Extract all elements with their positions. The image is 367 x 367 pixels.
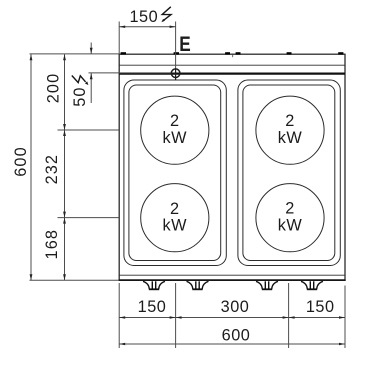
top extension line right (electrical point up) [175, 22, 177, 70]
body outer rectangle [119, 54, 345, 280]
svg-text:kW: kW [278, 129, 303, 147]
feet [143, 281, 323, 290]
svg-text:200: 200 [44, 73, 62, 103]
600 left dimension line [30, 54, 32, 280]
left bottom extension line [30, 279, 120, 281]
foot 2 [187, 281, 209, 290]
50 dimension lower leg [90, 73, 92, 103]
left top extension line [30, 53, 120, 55]
arrowheads [30, 26, 345, 346]
svg-text:50: 50 [71, 86, 89, 106]
50 dimension upper leg [90, 43, 92, 54]
bottom extension line x=175.6 [175, 283, 177, 348]
bottom 150/300/150 dim arrows [119, 316, 125, 319]
top extension line left (body edge up) [118, 22, 120, 55]
bottom band thin line [119, 274, 345, 276]
top band thin line [119, 64, 345, 66]
left hob module outer rounded rect [124, 80, 226, 266]
svg-text:kW: kW [163, 216, 188, 234]
svg-text:150: 150 [306, 298, 335, 316]
svg-text:2: 2 [285, 112, 295, 130]
extension line from connection point to 50-dim [89, 72, 172, 74]
foot 3 [256, 281, 278, 290]
left junction extension line 200/232 [58, 129, 120, 131]
svg-text:2: 2 [170, 112, 180, 130]
50 dim outside arrows [90, 48, 93, 54]
foot 1 [143, 281, 165, 290]
hotplate top-left [141, 96, 209, 164]
chain dim arrows [63, 54, 66, 60]
svg-text:600: 600 [222, 327, 251, 345]
bottom 600 dim arrows [119, 343, 125, 346]
hotplate bottom-right [256, 184, 324, 252]
connection point circle [171, 69, 180, 78]
svg-text:kW: kW [163, 129, 188, 147]
svg-text:2: 2 [170, 200, 180, 218]
svg-text:600: 600 [12, 146, 30, 176]
svg-text:150: 150 [129, 8, 158, 26]
right hob module outer rounded rect [238, 80, 340, 266]
chain dimension line 200/232/168 [64, 54, 66, 280]
top thick line (hob surface front edge) [119, 72, 345, 74]
left junction extension line 232/168 [58, 217, 120, 219]
top 150 dim arrows [119, 26, 125, 29]
bottom extension line x=288.6 [288, 283, 290, 348]
foot 4 [301, 281, 323, 290]
svg-text:150: 150 [138, 298, 167, 316]
bottom extension line x=345 [344, 286, 346, 349]
lightning top [161, 7, 171, 22]
svg-text:kW: kW [278, 216, 303, 234]
600 left dim arrows [30, 54, 33, 60]
body bottom thick edge [119, 279, 346, 281]
right hob module inner rounded rect [243, 85, 335, 261]
top 150 dimension line [119, 26, 175, 28]
svg-text:300: 300 [221, 298, 250, 316]
svg-text:168: 168 [43, 229, 61, 259]
center tick below top edge [232, 54, 234, 57]
svg-text:232: 232 [43, 154, 61, 184]
hotplate bottom-left [141, 184, 209, 252]
bottom extension line x=119 [118, 283, 120, 348]
svg-text:E: E [179, 32, 190, 56]
bottom dimension line 150/300/150 [119, 317, 345, 319]
black tick marks on top edge [121, 52, 344, 54]
bottom dimension line 600 [119, 343, 345, 345]
lightning left [72, 76, 89, 86]
left hob module inner rounded rect [129, 85, 221, 261]
hotplate top-right [256, 96, 324, 164]
svg-text:2: 2 [285, 200, 295, 218]
